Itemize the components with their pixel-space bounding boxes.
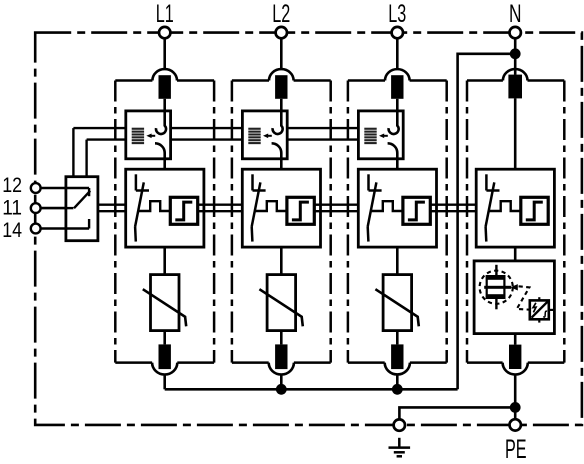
wire L1 terminal to module [163,38,166,70]
trigger dashed link [517,286,530,309]
fuse link bottom (L3) [391,344,403,369]
L3 module plug-in arc top [385,69,410,80]
wire L1 branch to common bus [163,374,166,389]
L2 module plug-in arc bottom [269,363,294,375]
wire disconnector to varistor (L3) [396,247,399,275]
status indicator box (L3) [403,197,430,224]
spark gap module box (N-PE) [474,261,554,334]
remote signalling changeover contact box [66,177,98,241]
switch-disconnector symbol (L3) [368,174,382,241]
thermal disconnector box (L2) [242,111,287,159]
wire terminal 14 to contact box [41,227,66,230]
signal wires contact box to L1 disconnector [73,128,125,140]
svg-text:14: 14 [2,218,22,242]
varistor L1 [143,275,186,331]
svg-text:L3: L3 [388,0,406,28]
svg-text:L1: L1 [156,0,174,28]
junction N node [510,48,521,59]
wire L3 terminal to module [396,38,399,70]
wire L2 branch to common bus [280,374,283,389]
signal wires L2 to L3 disconnector [287,128,358,140]
thermal disconnector box (L1) [126,111,171,159]
common bus wire (L1 L2 L3 varistor outputs) [165,388,458,391]
heater block (L2) [248,128,260,144]
status pulse line (L3) [371,201,403,211]
svg-text:PE: PE [505,434,527,464]
svg-text:L2: L2 [272,0,290,28]
status pulse line (L1) [139,201,171,211]
N module plug-in arc top [503,69,528,80]
wire N terminal to module [514,38,517,75]
fuse link top (L1) [159,75,171,99]
wire varistor to bottom fuse (L2) [280,331,283,345]
status pulse line (L2) [255,201,287,211]
fuse link bottom (N) [509,345,521,369]
svg-text:N: N [509,0,522,28]
terminal L2 [276,27,287,38]
terminal 12 [31,183,41,193]
junction L2 bus node [276,384,287,395]
status indicator box (L2) [287,197,314,224]
svg-text:12: 12 [2,173,22,197]
switch-disconnector symbol (N) [486,174,500,241]
trip arrow (L3) [379,134,388,139]
wire fuse to disconnection device (N) [514,98,517,169]
status indicator box (N) [521,197,548,224]
fuse link bottom (L2) [275,344,287,369]
varistor L3 [375,275,418,331]
indicator output stubs (L1) [198,205,204,212]
L1 module plug-in arc top [152,69,177,80]
switch-disconnector symbol (L1) [135,174,149,241]
status wires L3 to N device [437,205,477,212]
step glyph (L1) [175,202,192,220]
terminal 14 [31,224,41,234]
step glyph (N) [526,202,543,220]
disconnection device box (L3) [358,169,436,247]
terminal L1 [159,27,170,38]
wire fuse to thermal disconnector (L2) [280,99,283,111]
wire contact box to signal chain (right riser) [85,140,87,177]
disconnection device box (N) [476,169,554,247]
earth terminal [394,419,405,430]
wire disconnection device to spark gap (N) [514,247,517,261]
varistor L2 [259,275,302,331]
wire disconnector to varistor (L1) [163,247,166,275]
contact lower horn and wire to disconnector (L2) [272,143,282,169]
wire terminal 11 to contact box [41,207,66,210]
N module plug-in arc bottom [503,363,528,375]
trip arrow (L1) [146,134,155,139]
N module housing (dash-dot) [467,81,564,363]
wire spark gap to bottom fuse (N) [514,334,517,345]
fuse link top (L3) [391,75,403,99]
wire N branch to PE node [514,374,517,419]
contact upper horn (L3) [389,111,399,134]
disconnection device box (L2) [242,169,320,247]
disconnection device box (L1) [126,169,204,247]
wire common bus riser to N node [458,54,516,390]
thermal disconnector box (L3) [358,111,403,159]
heater block (L3) [364,128,376,144]
contact lower horn and wire to disconnector (L3) [388,143,398,169]
wire L3 branch to common bus [396,374,399,389]
ground symbol [389,438,411,457]
step glyph (L3) [408,202,425,220]
wire fuse to thermal disconnector (L3) [396,99,399,111]
changeover contact symbol [66,188,90,229]
L2 module housing (dash-dot) [232,81,331,363]
fuse link bottom (L1) [159,344,171,369]
status wires L1 to L2 device [204,205,242,212]
contact upper horn (L1) [156,111,166,134]
L1 module plug-in arc bottom [152,363,177,375]
trigger arrow [510,284,517,290]
gas discharge tube in dashed circle [480,265,513,310]
terminal 11 [31,203,41,213]
L2 module plug-in arc top [269,69,294,80]
heater block (L1) [132,128,144,144]
trip arrow (L2) [263,134,272,139]
junction PE node [510,402,521,413]
junction L3 bus node [392,384,403,395]
wire L2 terminal to module [280,38,283,70]
fuse link top (N) [508,75,522,99]
contact lower horn and wire to disconnector (L1) [155,143,165,169]
terminal PE [510,419,521,430]
terminal N [510,27,521,38]
L1 module housing (dash-dot) [115,81,214,363]
indicator output stubs (L3) [430,205,436,212]
switch-disconnector symbol (L2) [252,174,266,241]
wire varistor to bottom fuse (L3) [396,331,399,345]
terminal L3 [392,27,403,38]
status indicator box (L1) [170,197,197,224]
contact upper horn (L2) [273,111,283,134]
fuse link top (L2) [275,75,287,99]
wire contact box to signal chain (left riser) [72,128,74,177]
signal wires L1 to L2 disconnector [171,128,243,140]
wire PE node to earth terminal [399,407,515,419]
enclosure border (dash-dot) [35,33,582,425]
L3 module housing (dash-dot) [348,81,447,363]
L3 module plug-in arc bottom [385,363,410,375]
wire disconnector to varistor (L2) [280,247,283,275]
svg-text:11: 11 [2,195,22,219]
step glyph (L2) [292,202,309,220]
status wires contact box to L1 device [98,205,126,212]
wire fuse to thermal disconnector (L1) [163,99,166,111]
wire terminal 12 to contact box [41,187,66,190]
trigger device box [530,297,553,322]
indicator output stubs (L2) [314,205,320,212]
wire varistor to bottom fuse (L1) [163,331,166,345]
status pulse line (N) [489,201,521,211]
status wires L2 to L3 device [321,205,359,212]
